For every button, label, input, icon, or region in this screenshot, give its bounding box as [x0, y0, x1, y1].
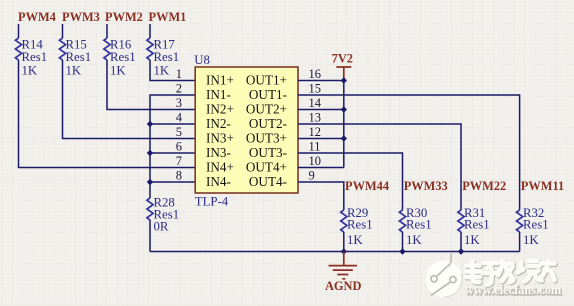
svg-text:16: 16: [309, 67, 322, 81]
junction 7V2 pin12: [341, 135, 347, 141]
svg-text:Res1: Res1: [110, 50, 136, 64]
wire R17 to pin1 IN1+: [150, 60, 195, 81]
svg-text:IN2-: IN2-: [206, 116, 231, 131]
wire R32 to rail: [519, 232, 521, 252]
svg-text:Res1: Res1: [154, 50, 180, 64]
pin 16 OUT1+: [246, 67, 321, 88]
svg-text:7: 7: [176, 154, 182, 168]
svg-text:U8: U8: [194, 53, 210, 67]
svg-text:OUT3-: OUT3-: [249, 145, 287, 160]
svg-text:Res1: Res1: [406, 218, 432, 232]
svg-text:OUT4+: OUT4+: [246, 159, 287, 174]
svg-text:1: 1: [176, 67, 182, 81]
svg-text:IN4+: IN4+: [206, 159, 234, 174]
svg-text:PWM2: PWM2: [105, 10, 143, 24]
svg-text:14: 14: [309, 96, 322, 110]
svg-text:5: 5: [176, 125, 182, 139]
junction rail R29: [341, 248, 347, 254]
pin 15 OUT1-: [249, 81, 321, 102]
wire ground rail: [150, 251, 520, 253]
svg-text:PWM11: PWM11: [521, 179, 564, 193]
pin 1 IN1+: [176, 67, 234, 88]
svg-text:IN3+: IN3+: [206, 130, 234, 145]
wire pin9 OUT4- to PWM44 column: [298, 182, 344, 210]
svg-text:1K: 1K: [110, 64, 126, 78]
junction 7V2 pin14: [341, 106, 347, 112]
svg-text:4: 4: [176, 110, 183, 124]
pin 14 OUT2+: [246, 96, 322, 117]
wire PWM2 to R16: [106, 24, 108, 38]
svg-text:12: 12: [309, 125, 322, 139]
wire pin15 OUT1- to PWM11 column: [298, 95, 520, 210]
svg-text:OUT2-: OUT2-: [249, 116, 287, 131]
pin 12 OUT3+: [246, 125, 321, 146]
resistor R30: [399, 206, 431, 247]
resistor R17: [147, 38, 179, 78]
wire pin6 tap: [150, 152, 195, 154]
wire pin16 to 7V2: [298, 80, 344, 82]
junction on bus at pin6: [147, 150, 153, 156]
resistor R32: [517, 206, 549, 247]
svg-text:0R: 0R: [154, 220, 169, 234]
svg-text:Res1: Res1: [464, 218, 490, 232]
resistor R29: [341, 206, 373, 247]
resistor R15: [59, 38, 91, 78]
pin 3 IN2+: [176, 96, 234, 117]
resistor R31: [458, 206, 490, 247]
wire pin10 to 7V2: [298, 167, 344, 169]
pin 11 OUT3-: [249, 139, 321, 160]
resistor R16: [104, 38, 136, 78]
resistor R28: [147, 196, 179, 234]
wire pin12 to 7V2: [298, 138, 344, 140]
wire IN-minus bus pin2 down to R28: [150, 95, 195, 198]
svg-text:OUT1-: OUT1-: [249, 87, 287, 102]
wire 7V2 bus: [343, 81, 345, 168]
svg-text:1K: 1K: [154, 64, 170, 78]
wire R14 to pin7 IN4+: [19, 60, 196, 168]
junction on bus at pin4: [147, 121, 153, 127]
svg-text:2: 2: [176, 81, 182, 95]
wire PWM1 to R17: [149, 24, 151, 38]
svg-text:IN1+: IN1+: [206, 72, 234, 87]
svg-text:10: 10: [309, 154, 322, 168]
svg-text:7V2: 7V2: [332, 51, 353, 65]
svg-text:1K: 1K: [464, 233, 480, 247]
wire R30 to rail: [402, 232, 404, 252]
svg-text:TLP-4: TLP-4: [195, 195, 229, 209]
power 7V2: [332, 51, 353, 80]
svg-text:Res1: Res1: [347, 218, 373, 232]
wire R31 to rail: [460, 232, 462, 252]
pin 2 IN1-: [176, 81, 231, 102]
svg-text:PWM4: PWM4: [18, 10, 56, 24]
svg-text:1K: 1K: [523, 233, 539, 247]
svg-text:PWM33: PWM33: [404, 179, 448, 193]
wire R15 to pin5 IN3+: [63, 60, 196, 139]
junction on bus at pin8: [147, 179, 153, 185]
svg-text:6: 6: [176, 139, 182, 153]
svg-text:13: 13: [309, 110, 322, 124]
svg-text:Res1: Res1: [22, 50, 48, 64]
svg-text:15: 15: [309, 81, 322, 95]
pin 6 IN3-: [176, 139, 231, 160]
svg-text:IN1-: IN1-: [206, 87, 231, 102]
svg-text:1K: 1K: [347, 233, 363, 247]
svg-text:3: 3: [176, 96, 182, 110]
ground AGND: [325, 252, 362, 294]
pin 8 IN4-: [176, 168, 231, 189]
svg-text:OUT1+: OUT1+: [246, 72, 287, 87]
svg-text:1K: 1K: [66, 64, 82, 78]
wire pin13 OUT2- to PWM22 column: [298, 124, 461, 210]
wire PWM4 to R14: [18, 24, 20, 38]
pin 5 IN3+: [176, 125, 234, 146]
wire pin11 OUT3- to PWM33 column: [298, 153, 403, 210]
wire PWM3 to R15: [62, 24, 64, 38]
wire pin8 tap: [150, 181, 195, 183]
svg-text:Res1: Res1: [523, 218, 549, 232]
svg-text:IN4-: IN4-: [206, 174, 231, 189]
pin 9 OUT4-: [249, 168, 315, 189]
svg-text:9: 9: [309, 168, 315, 182]
resistor R14: [15, 38, 47, 78]
watermark logo elecfans: [426, 254, 563, 298]
pin 4 IN2-: [176, 110, 231, 131]
svg-text:OUT3+: OUT3+: [246, 130, 287, 145]
svg-text:PWM3: PWM3: [62, 10, 100, 24]
svg-text:1K: 1K: [22, 64, 38, 78]
wire R28 to ground rail: [149, 220, 151, 252]
pin 13 OUT2-: [249, 110, 321, 131]
svg-text:1K: 1K: [406, 233, 422, 247]
svg-text:8: 8: [176, 168, 182, 182]
wire pin4 tap: [150, 123, 195, 125]
IC U8 TLP-4 body: [194, 53, 298, 209]
svg-text:www.elecfans.com: www.elecfans.com: [465, 283, 562, 297]
svg-text:OUT4-: OUT4-: [249, 174, 287, 189]
junction rail R30: [399, 248, 405, 254]
junction rail R31: [458, 248, 464, 254]
svg-text:IN3-: IN3-: [206, 145, 231, 160]
svg-text:IN2+: IN2+: [206, 101, 234, 116]
wire R29 to rail: [343, 232, 345, 252]
svg-text:PWM22: PWM22: [462, 179, 506, 193]
junction 7V2 pin16: [341, 77, 347, 83]
wire pin14 to 7V2: [298, 109, 344, 111]
svg-text:11: 11: [309, 139, 321, 153]
svg-text:OUT2+: OUT2+: [246, 101, 287, 116]
svg-text:Res1: Res1: [66, 50, 92, 64]
pin 7 IN4+: [176, 154, 234, 175]
svg-text:PWM1: PWM1: [149, 10, 187, 24]
svg-text:PWM44: PWM44: [345, 179, 389, 193]
pin 10 OUT4+: [246, 154, 321, 175]
svg-text:AGND: AGND: [325, 279, 362, 293]
wire R16 to pin3 IN2+: [107, 60, 195, 110]
